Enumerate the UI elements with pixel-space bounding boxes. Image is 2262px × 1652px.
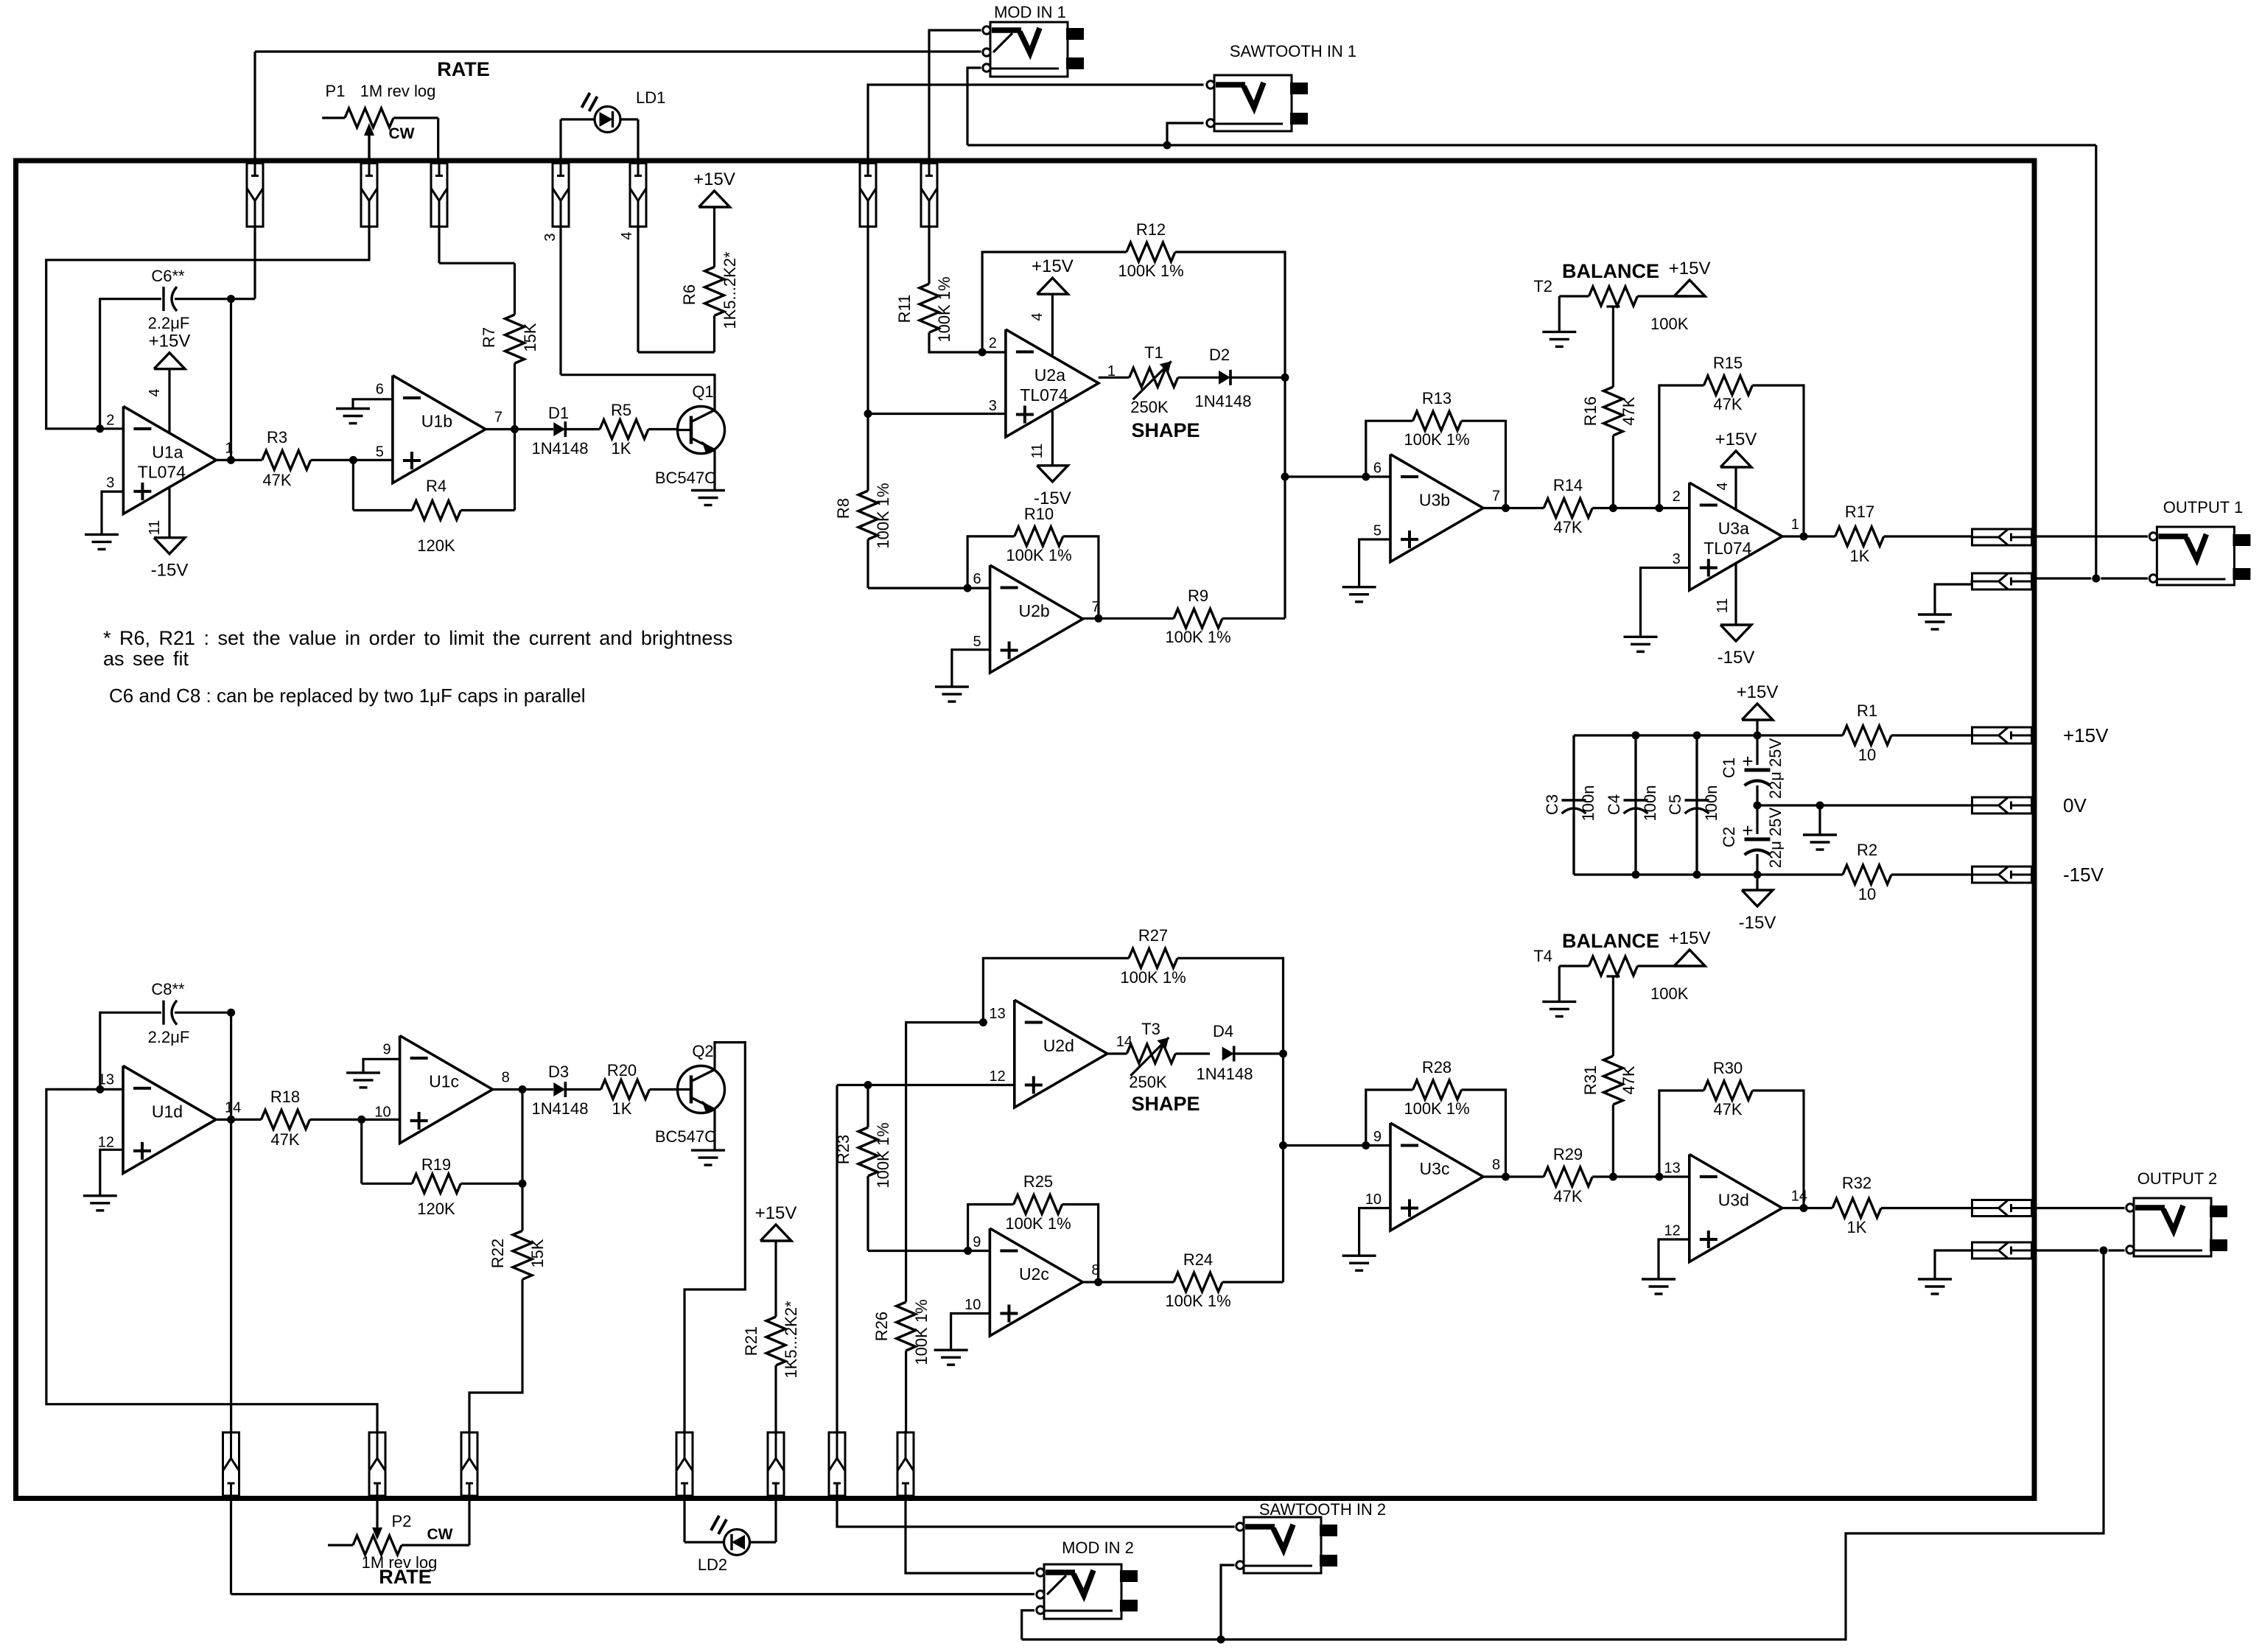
svg-text:47K: 47K — [1553, 1187, 1582, 1205]
svg-text:R8: R8 — [834, 498, 852, 519]
svg-text:100K 1%: 100K 1% — [874, 483, 892, 548]
svg-text:LD1: LD1 — [636, 88, 665, 107]
svg-text:14: 14 — [225, 1099, 241, 1116]
svg-text:13: 13 — [1664, 1161, 1681, 1177]
svg-text:12: 12 — [990, 1068, 1006, 1085]
svg-text:C2: C2 — [1720, 827, 1738, 847]
svg-text:100n: 100n — [1702, 785, 1720, 822]
svg-text:1K: 1K — [612, 1099, 632, 1118]
svg-text:100n: 100n — [1579, 785, 1597, 822]
svg-text:1K: 1K — [1850, 547, 1870, 565]
svg-text:Q2: Q2 — [692, 1042, 713, 1060]
svg-text:1N4148: 1N4148 — [531, 439, 588, 458]
svg-text:+15V: +15V — [1032, 256, 1074, 276]
svg-text:2: 2 — [106, 412, 114, 428]
svg-text:C8**: C8** — [151, 980, 185, 998]
svg-text:9: 9 — [973, 1234, 981, 1250]
svg-text:100K 1%: 100K 1% — [1118, 262, 1183, 280]
svg-text:1N4148: 1N4148 — [1194, 392, 1251, 410]
svg-text:TL074: TL074 — [1020, 385, 1068, 405]
svg-text:1N4148: 1N4148 — [1196, 1065, 1253, 1083]
svg-text:5: 5 — [973, 634, 981, 650]
svg-text:OUTPUT 2: OUTPUT 2 — [2137, 1169, 2217, 1188]
svg-text:R7: R7 — [480, 327, 498, 348]
svg-text:47K: 47K — [270, 1130, 299, 1149]
svg-text:4: 4 — [1715, 482, 1731, 490]
svg-text:12: 12 — [1664, 1223, 1681, 1239]
svg-text:R24: R24 — [1183, 1250, 1213, 1269]
svg-text:+15V: +15V — [149, 332, 191, 351]
svg-text:100K 1%: 100K 1% — [1005, 1214, 1071, 1233]
svg-text:-15V: -15V — [1717, 648, 1755, 668]
svg-text:U2d: U2d — [1043, 1036, 1074, 1055]
svg-text:6: 6 — [376, 382, 384, 398]
svg-text:D4: D4 — [1213, 1022, 1233, 1040]
svg-text:47K: 47K — [1620, 1065, 1638, 1094]
svg-text:R12: R12 — [1136, 220, 1166, 239]
svg-text:C1: C1 — [1720, 757, 1738, 778]
svg-text:120K: 120K — [417, 1200, 455, 1218]
svg-text:13: 13 — [990, 1006, 1006, 1022]
svg-text:R17: R17 — [1845, 503, 1874, 521]
svg-text:100K 1%: 100K 1% — [1404, 430, 1469, 449]
svg-text:R28: R28 — [1422, 1058, 1452, 1077]
svg-text:1M rev log: 1M rev log — [360, 82, 436, 100]
svg-text:R29: R29 — [1553, 1145, 1583, 1163]
svg-text:1: 1 — [225, 440, 233, 456]
svg-text:C6 and C8 : can be replaced by: C6 and C8 : can be replaced by two 1μF c… — [109, 685, 586, 707]
svg-text:R2: R2 — [1857, 841, 1877, 859]
svg-text:BC547C: BC547C — [655, 469, 716, 487]
svg-text:BALANCE: BALANCE — [1562, 930, 1659, 952]
svg-text:10: 10 — [1858, 746, 1876, 764]
svg-text:9: 9 — [382, 1042, 391, 1058]
svg-text:R32: R32 — [1842, 1174, 1871, 1192]
svg-text:100K 1%: 100K 1% — [912, 1299, 931, 1365]
svg-text:C4: C4 — [1605, 794, 1623, 815]
svg-text:1: 1 — [1791, 517, 1799, 533]
svg-text:15K: 15K — [528, 1239, 547, 1267]
svg-text:R1: R1 — [1857, 701, 1877, 720]
svg-text:47K: 47K — [262, 471, 291, 489]
svg-text:CW: CW — [389, 125, 415, 142]
svg-text:R15: R15 — [1713, 354, 1743, 372]
svg-text:C3: C3 — [1543, 794, 1561, 815]
svg-text:U2b: U2b — [1018, 601, 1049, 620]
svg-text:15K: 15K — [521, 323, 539, 351]
svg-text:U3b: U3b — [1419, 491, 1450, 510]
svg-text:2: 2 — [1673, 489, 1681, 505]
svg-text:10: 10 — [374, 1105, 391, 1121]
svg-text:47K: 47K — [1553, 518, 1582, 536]
svg-text:+15V: +15V — [1737, 682, 1779, 702]
svg-text:100K 1%: 100K 1% — [874, 1122, 892, 1188]
svg-text:3: 3 — [1673, 551, 1681, 567]
svg-text:R25: R25 — [1023, 1172, 1053, 1191]
svg-text:13: 13 — [98, 1071, 114, 1088]
svg-text:4: 4 — [1029, 312, 1046, 321]
svg-text:11: 11 — [1715, 598, 1731, 614]
svg-text:-15V: -15V — [2063, 864, 2104, 886]
svg-text:D1: D1 — [548, 404, 569, 422]
svg-text:T2: T2 — [1533, 277, 1552, 295]
svg-text:100K 1%: 100K 1% — [1165, 1292, 1230, 1310]
svg-text:R9: R9 — [1188, 587, 1208, 605]
svg-text:D3: D3 — [548, 1063, 569, 1081]
svg-text:3: 3 — [542, 233, 559, 241]
svg-text:100K: 100K — [1650, 315, 1689, 333]
svg-text:9: 9 — [1373, 1129, 1382, 1145]
svg-text:100K 1%: 100K 1% — [1120, 968, 1186, 987]
svg-text:R21: R21 — [742, 1326, 760, 1356]
svg-text:4: 4 — [147, 388, 163, 396]
svg-text:+: + — [1742, 819, 1753, 841]
svg-text:-15V: -15V — [151, 561, 189, 581]
svg-text:10: 10 — [964, 1297, 981, 1313]
svg-text:OUTPUT 1: OUTPUT 1 — [2163, 498, 2243, 517]
svg-text:RATE: RATE — [437, 58, 490, 80]
svg-text:U3c: U3c — [1420, 1159, 1450, 1178]
svg-text:TL074: TL074 — [1703, 539, 1751, 558]
svg-text:U3a: U3a — [1718, 519, 1749, 538]
svg-text:1K5...2K2*: 1K5...2K2* — [782, 1301, 800, 1379]
svg-text:10: 10 — [1365, 1191, 1382, 1208]
svg-text:R23: R23 — [834, 1135, 852, 1164]
svg-text:2.2μF: 2.2μF — [148, 314, 190, 332]
svg-text:3: 3 — [989, 398, 997, 414]
svg-text:P2: P2 — [392, 1512, 412, 1530]
svg-text:U2a: U2a — [1034, 365, 1065, 385]
svg-text:BC547C: BC547C — [655, 1127, 716, 1146]
svg-text:47K: 47K — [1713, 395, 1742, 413]
svg-text:+: + — [1742, 750, 1753, 772]
svg-text:7: 7 — [1492, 489, 1500, 505]
svg-text:R20: R20 — [607, 1061, 637, 1079]
svg-text:1N4148: 1N4148 — [531, 1099, 588, 1118]
svg-text:8: 8 — [502, 1070, 510, 1086]
svg-text:0V: 0V — [2063, 794, 2087, 816]
svg-text:100K 1%: 100K 1% — [1006, 546, 1071, 564]
svg-text:2.2μF: 2.2μF — [148, 1028, 190, 1046]
svg-text:CW: CW — [427, 1526, 453, 1543]
svg-text:250K: 250K — [1130, 398, 1169, 416]
svg-text:U2c: U2c — [1019, 1264, 1049, 1284]
svg-text:47K: 47K — [1713, 1100, 1742, 1119]
svg-text:6: 6 — [973, 571, 981, 587]
svg-text:+15V: +15V — [1715, 430, 1757, 449]
svg-text:U3d: U3d — [1718, 1191, 1749, 1210]
svg-text:100K 1%: 100K 1% — [1165, 628, 1230, 646]
svg-text:R30: R30 — [1713, 1059, 1743, 1077]
svg-text:+15V: +15V — [1669, 928, 1711, 948]
svg-text:R31: R31 — [1581, 1065, 1600, 1095]
svg-text:1K: 1K — [612, 439, 631, 458]
svg-text:D2: D2 — [1209, 346, 1230, 364]
svg-text:C6**: C6** — [151, 267, 185, 285]
svg-text:100K: 100K — [1650, 984, 1689, 1003]
svg-text:TL074: TL074 — [138, 462, 186, 481]
svg-text:3: 3 — [106, 475, 114, 491]
svg-text:Q1: Q1 — [692, 382, 713, 401]
svg-text:R22: R22 — [489, 1239, 507, 1268]
svg-text:U1b: U1b — [421, 412, 452, 431]
svg-text:U1d: U1d — [152, 1102, 183, 1121]
svg-text:100K 1%: 100K 1% — [1404, 1099, 1469, 1118]
svg-text:R13: R13 — [1422, 389, 1452, 407]
svg-text:8: 8 — [1492, 1157, 1500, 1173]
svg-text:+15V: +15V — [1669, 259, 1711, 279]
svg-text:R11: R11 — [895, 295, 914, 323]
svg-text:+15V: +15V — [755, 1203, 797, 1223]
svg-text:R3: R3 — [267, 428, 287, 447]
svg-text:SAWTOOTH IN 2: SAWTOOTH IN 2 — [1259, 1500, 1386, 1519]
svg-text:10: 10 — [1858, 885, 1876, 903]
svg-text:6: 6 — [1373, 461, 1382, 477]
svg-text:+15V: +15V — [2063, 724, 2109, 746]
svg-text:U1c: U1c — [429, 1072, 459, 1091]
svg-text:R5: R5 — [611, 401, 631, 419]
svg-text:4: 4 — [619, 231, 635, 239]
svg-text:5: 5 — [1373, 523, 1382, 539]
svg-text:250K: 250K — [1129, 1073, 1167, 1091]
svg-text:U1a: U1a — [152, 442, 183, 461]
svg-text:+15V: +15V — [693, 169, 735, 189]
svg-text:R19: R19 — [421, 1155, 451, 1174]
svg-text:R14: R14 — [1553, 476, 1583, 494]
svg-text:MOD IN 1: MOD IN 1 — [994, 3, 1066, 21]
svg-text:14: 14 — [1791, 1189, 1807, 1205]
svg-text:SHAPE: SHAPE — [1131, 1093, 1200, 1115]
svg-text:1K5...2K2*: 1K5...2K2* — [721, 251, 739, 329]
svg-text:BALANCE: BALANCE — [1562, 260, 1659, 282]
svg-text:R10: R10 — [1024, 505, 1054, 523]
svg-text:T3: T3 — [1141, 1020, 1160, 1038]
svg-text:as see fit: as see fit — [103, 648, 189, 670]
svg-text:47K: 47K — [1620, 396, 1638, 425]
svg-text:100K 1%: 100K 1% — [935, 276, 953, 342]
svg-text:LD2: LD2 — [698, 1555, 727, 1574]
svg-text:5: 5 — [376, 444, 384, 461]
svg-text:1K: 1K — [1847, 1218, 1867, 1236]
svg-text:-15V: -15V — [1739, 913, 1776, 933]
svg-text:11: 11 — [147, 520, 163, 536]
svg-text:P1: P1 — [326, 82, 346, 100]
svg-text:* R6, R21 : set the value in o: * R6, R21 : set the value in order to li… — [103, 627, 732, 649]
svg-text:R27: R27 — [1138, 926, 1168, 945]
svg-text:T4: T4 — [1533, 947, 1552, 965]
svg-text:T1: T1 — [1144, 343, 1163, 362]
svg-text:SHAPE: SHAPE — [1131, 419, 1200, 441]
svg-text:11: 11 — [1029, 444, 1046, 459]
svg-text:120K: 120K — [417, 536, 455, 555]
svg-text:R26: R26 — [872, 1312, 891, 1341]
svg-text:R6: R6 — [680, 284, 698, 305]
svg-text:SAWTOOTH IN 1: SAWTOOTH IN 1 — [1230, 42, 1356, 60]
svg-text:7: 7 — [494, 410, 503, 426]
svg-text:C5: C5 — [1666, 794, 1684, 815]
svg-text:MOD IN 2: MOD IN 2 — [1062, 1539, 1134, 1557]
svg-text:22μ 25V: 22μ 25V — [1766, 738, 1785, 799]
svg-text:2: 2 — [989, 335, 997, 351]
svg-text:100n: 100n — [1641, 785, 1659, 822]
svg-text:22μ 25V: 22μ 25V — [1766, 807, 1785, 868]
svg-text:R18: R18 — [270, 1088, 300, 1106]
svg-text:R16: R16 — [1581, 396, 1600, 426]
svg-text:R4: R4 — [426, 477, 447, 495]
svg-text:12: 12 — [98, 1134, 114, 1150]
svg-text:RATE: RATE — [379, 1566, 432, 1588]
